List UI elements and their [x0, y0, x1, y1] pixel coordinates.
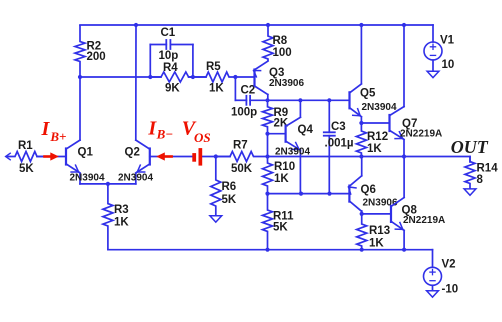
- svg-text:C1: C1: [161, 27, 176, 39]
- resistor R13: [357, 214, 367, 250]
- node C1 left tap: [148, 75, 152, 79]
- svg-text:R1: R1: [18, 140, 33, 152]
- wire Q1 emitter down: [79, 173, 81, 184]
- svg-text:OS: OS: [194, 130, 211, 145]
- port input arrow: [6, 153, 11, 160]
- node emitter junction: [106, 182, 110, 186]
- svg-text:B+: B+: [49, 129, 66, 144]
- svg-text:9K: 9K: [165, 83, 180, 95]
- svg-text:2N3904: 2N3904: [70, 172, 105, 183]
- node Q4 collector junction: [298, 98, 302, 102]
- node C1 right tap: [191, 75, 195, 79]
- svg-text:2N3904: 2N3904: [118, 172, 153, 183]
- node Q6 collector junction: [360, 212, 364, 216]
- svg-text:B−: B−: [156, 127, 174, 142]
- svg-text:R8: R8: [273, 35, 288, 47]
- svg-text:5K: 5K: [273, 222, 288, 234]
- svg-text:Q1: Q1: [78, 147, 94, 159]
- wire Q2 collector drop: [135, 25, 137, 140]
- wire Q6 collector down: [361, 211, 363, 214]
- svg-text:10p: 10p: [159, 50, 179, 62]
- svg-text:R6: R6: [222, 181, 237, 193]
- wire Q8 emitter down: [403, 231, 405, 250]
- wire bias rail: [268, 193, 350, 195]
- wire Q5 collector drop: [360, 25, 362, 84]
- svg-text:R3: R3: [114, 204, 129, 216]
- svg-text:R13: R13: [369, 225, 390, 237]
- svg-text:R4: R4: [163, 62, 178, 74]
- transistor Q1: [65, 149, 67, 165]
- resistor R6: [211, 157, 221, 216]
- svg-text:1K: 1K: [274, 173, 289, 185]
- node C3 bottom junction: [327, 192, 331, 196]
- svg-text:1K: 1K: [209, 83, 224, 95]
- svg-text:Q4: Q4: [298, 124, 314, 136]
- node Q8 emitter junction: [402, 248, 406, 252]
- transistor Q6: [348, 186, 350, 202]
- wire Q7 collector drop: [403, 25, 405, 107]
- svg-text:100p: 100p: [231, 107, 257, 119]
- svg-text:V2: V2: [442, 259, 456, 271]
- svg-text:.001µ: .001µ: [325, 137, 354, 149]
- resistor R11: [263, 194, 273, 250]
- svg-text:2N2219A: 2N2219A: [400, 128, 442, 139]
- wire bottom rail: [108, 249, 433, 251]
- capacitor C1: [149, 45, 151, 78]
- svg-text:I: I: [41, 118, 51, 140]
- resistor R1: [6, 152, 44, 162]
- wire top power rail: [80, 24, 433, 26]
- resistor R8: [263, 25, 273, 61]
- svg-text:R7: R7: [233, 140, 248, 152]
- ground V1: [427, 71, 439, 77]
- svg-text:8: 8: [477, 174, 484, 186]
- voltage source V1: [424, 42, 442, 60]
- svg-text:R11: R11: [273, 210, 294, 222]
- wire Q8 base: [362, 213, 391, 215]
- wire R9 junction down to out rail: [267, 134, 269, 157]
- ground R6: [210, 216, 222, 222]
- transistor Q8: [390, 206, 392, 222]
- wire R8 to Q3 emitter: [255, 61, 269, 70]
- resistor R2: [75, 25, 85, 77]
- resistor R5: [193, 72, 236, 82]
- svg-text:200: 200: [87, 51, 106, 63]
- svg-text:10: 10: [442, 59, 455, 71]
- svg-text:R10: R10: [274, 161, 295, 173]
- transistor Q2: [149, 149, 151, 165]
- wire Q3 base: [235, 76, 253, 78]
- wire OUT to R14: [469, 157, 471, 163]
- wire Q5 emitter down: [360, 117, 362, 123]
- wire Q2 emitter down: [135, 173, 137, 184]
- ground R14: [464, 189, 476, 195]
- svg-text:2N2219A: 2N2219A: [403, 215, 445, 226]
- svg-text:R14: R14: [477, 162, 499, 174]
- wire Q1 collector up: [79, 77, 81, 140]
- svg-text:2N3906: 2N3906: [363, 198, 398, 209]
- transistor Q4: [285, 126, 287, 142]
- svg-text:R5: R5: [206, 61, 221, 73]
- svg-text:5K: 5K: [222, 194, 237, 206]
- annotation arrow IB+ into Q1 base: [45, 155, 52, 158]
- svg-text:V1: V1: [440, 34, 455, 46]
- svg-text:5K: 5K: [19, 163, 34, 175]
- annotation arrow IB- into Q2 base: [165, 155, 172, 158]
- wire Q2 emitter to node: [108, 183, 136, 185]
- node top rail R8: [266, 23, 270, 27]
- node top rail Q7: [402, 23, 406, 27]
- wire first-stage rail left: [80, 76, 161, 78]
- wire battery to R7: [202, 156, 230, 158]
- transistor Q3: [253, 70, 255, 86]
- wire V2 to ground: [432, 285, 434, 290]
- resistor R9: [263, 100, 273, 133]
- node Q4 emitter junction: [299, 192, 303, 196]
- wire V1 to ground: [432, 60, 434, 71]
- node C2/Q3/R9 junction: [265, 98, 269, 102]
- node Q3 base junction: [233, 75, 237, 79]
- svg-text:C2: C2: [241, 85, 256, 97]
- capacitor C2: [234, 77, 236, 100]
- svg-text:2N3904: 2N3904: [362, 102, 397, 113]
- resistor R14: [465, 157, 475, 189]
- node R6 top junction: [214, 154, 218, 158]
- wire V2 drop: [432, 250, 434, 268]
- wire output rail: [268, 156, 471, 158]
- svg-text:Q6: Q6: [361, 184, 376, 196]
- wire Q8 collector up: [403, 157, 405, 198]
- ground V2: [427, 291, 439, 297]
- resistor R7: [216, 152, 268, 162]
- node R9/Q4 base junction: [265, 132, 269, 136]
- wire Q7 emitter down: [403, 140, 405, 156]
- wire Q3 collector drop: [267, 95, 269, 101]
- svg-text:2N3906: 2N3906: [269, 78, 304, 89]
- node top rail Q5: [359, 23, 363, 27]
- svg-text:Q2: Q2: [125, 147, 140, 159]
- node R12 bottom junction: [359, 154, 363, 158]
- wire R1 to Q1 base: [37, 156, 66, 158]
- resistor R4: [150, 72, 193, 82]
- node C3 top junction: [327, 98, 331, 102]
- svg-text:-10: -10: [442, 283, 459, 295]
- wire Q4 emitter down: [299, 150, 301, 193]
- svg-text:R12: R12: [367, 131, 388, 143]
- wire V1 drop: [432, 25, 434, 42]
- transistor Q5: [348, 92, 350, 108]
- resistor R3: [103, 184, 113, 250]
- svg-text:1K: 1K: [114, 216, 129, 228]
- svg-text:OUT: OUT: [451, 137, 489, 157]
- annotation VOS battery symbol: [192, 153, 196, 162]
- wire Q6 emitter drop: [361, 157, 363, 176]
- wire Q2 base to battery: [150, 156, 193, 158]
- wire Q7 base: [361, 122, 389, 124]
- svg-text:Q5: Q5: [360, 87, 376, 99]
- transistor Q7: [388, 115, 390, 131]
- node R11 bottom junction: [265, 248, 269, 252]
- voltage source V2: [424, 267, 442, 285]
- wire R4 to R5: [189, 76, 206, 78]
- node bias rail left junction: [265, 192, 269, 196]
- wire Q4 collector up: [299, 100, 301, 117]
- svg-text:1K: 1K: [369, 237, 384, 249]
- wire Q4 base: [268, 133, 286, 135]
- svg-text:1K: 1K: [367, 143, 382, 155]
- resistor R10: [263, 157, 273, 194]
- capacitor C3: [328, 100, 330, 132]
- wire second-stage rail: [268, 99, 350, 101]
- svg-text:C3: C3: [331, 121, 346, 133]
- node top rail Q2 collector: [134, 23, 138, 27]
- node R13 bottom junction: [360, 248, 364, 252]
- node R10 top junction: [265, 154, 269, 158]
- wire Q1 emitter to node: [80, 183, 108, 185]
- node Q7/Q8 output junction: [402, 154, 406, 158]
- resistor R12: [356, 123, 366, 157]
- svg-text:100: 100: [273, 47, 292, 59]
- node Q5 emitter junction: [359, 121, 363, 125]
- svg-text:50K: 50K: [231, 163, 253, 175]
- node at R2 bottom: [78, 75, 82, 79]
